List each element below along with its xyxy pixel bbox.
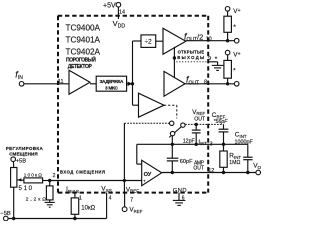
svg-text:7: 7 — [130, 197, 133, 203]
svg-text:*: * — [233, 24, 236, 31]
svg-text:14: 14 — [119, 10, 125, 16]
svg-text:1000pF: 1000pF — [235, 139, 254, 145]
svg-text:ОТКРЫТЫЕ: ОТКРЫТЫЕ — [178, 50, 205, 55]
svg-text:РЕГУЛИРОВКА: РЕГУЛИРОВКА — [6, 146, 44, 151]
svg-text:ОУ: ОУ — [144, 172, 152, 178]
svg-text:+5В: +5В — [16, 158, 27, 164]
svg-text:ЗАДЕРЖКА: ЗАДЕРЖКА — [100, 79, 125, 85]
svg-text:2: 2 — [53, 173, 56, 179]
svg-text:8: 8 — [204, 80, 207, 86]
svg-text:*: * — [233, 68, 236, 75]
svg-text:−5В: −5В — [0, 211, 11, 217]
svg-text:TC9400A: TC9400A — [66, 23, 101, 32]
svg-text:4: 4 — [109, 195, 112, 201]
svg-text:6: 6 — [182, 195, 185, 201]
svg-text:1: 1 — [79, 195, 82, 201]
svg-text:10: 10 — [206, 36, 212, 42]
svg-text:TC9402A: TC9402A — [66, 48, 101, 57]
svg-text:100кΩ: 100кΩ — [24, 172, 42, 178]
svg-text:СМЕЩЕНИЯ: СМЕЩЕНИЯ — [9, 151, 38, 156]
svg-text:ДЕТЕКТОР: ДЕТЕКТОР — [68, 64, 93, 70]
svg-text:11: 11 — [58, 79, 64, 85]
svg-text:60pF: 60pF — [180, 159, 193, 165]
svg-text:3 МКС: 3 МКС — [105, 85, 119, 91]
svg-text:IINT: IINT — [198, 140, 207, 146]
svg-text:510: 510 — [19, 186, 33, 192]
svg-text:+5V: +5V — [103, 3, 116, 10]
svg-text:OUT: OUT — [194, 117, 206, 123]
svg-text:GND: GND — [173, 188, 187, 194]
svg-text:TC9401A: TC9401A — [66, 35, 101, 44]
svg-text:12: 12 — [208, 168, 214, 174]
svg-text:÷2: ÷2 — [145, 39, 153, 46]
svg-text:12pF: 12pF — [183, 138, 195, 144]
svg-text:1МΩ: 1МΩ — [229, 160, 240, 166]
svg-text:V+: V+ — [233, 8, 240, 15]
svg-text:*: * — [215, 56, 218, 63]
svg-text:10кΩ: 10кΩ — [81, 205, 95, 211]
svg-text:+: + — [143, 180, 146, 185]
svg-text:V+: V+ — [233, 52, 240, 59]
svg-text:OUT: OUT — [193, 166, 204, 172]
svg-text:ВЫХОДЫ: ВЫХОДЫ — [177, 55, 204, 60]
svg-text:3: 3 — [210, 141, 213, 147]
svg-text:ВХОД СМЕЩЕНИЯ: ВХОД СМЕЩЕНИЯ — [60, 169, 105, 174]
svg-text:9: 9 — [208, 56, 211, 62]
svg-text:*56pF: *56pF — [214, 119, 229, 125]
svg-text:ПОРОГОВЫЙ: ПОРОГОВЫЙ — [66, 56, 96, 64]
